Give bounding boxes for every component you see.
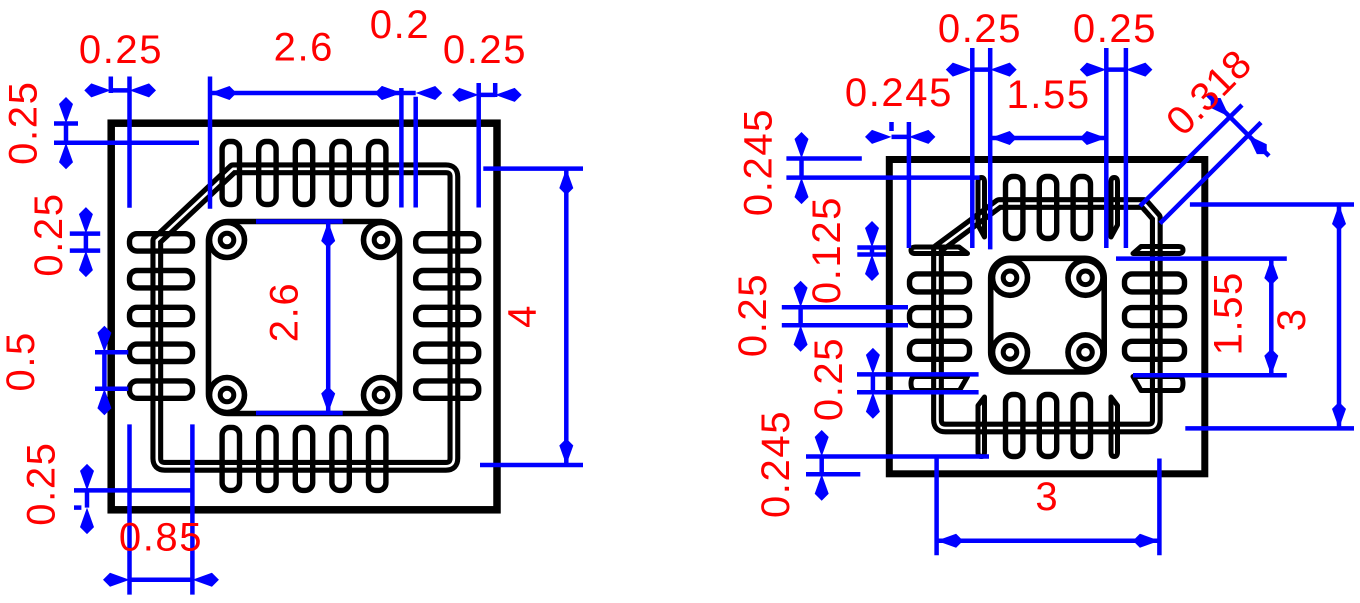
svg-text:0.25: 0.25 <box>731 273 775 357</box>
svg-text:0.245: 0.245 <box>754 410 798 518</box>
dim 1.55 top <box>990 136 1106 141</box>
svg-text:0.25: 0.25 <box>443 28 527 72</box>
dim 0.5 left (pitch) <box>95 350 128 355</box>
dim 0.245 left #1 <box>786 156 861 161</box>
right silkscreen outline (chamfer TL big, TR small) <box>938 204 1157 429</box>
right vias <box>993 260 1028 295</box>
dim 0.25 left #3 <box>782 305 908 310</box>
dim 0.85 bottom <box>127 424 132 594</box>
dim 1.55 right <box>1116 256 1287 261</box>
svg-text:2.6: 2.6 <box>274 26 334 70</box>
right corner clipped pads <box>978 178 985 238</box>
svg-text:0.125: 0.125 <box>805 196 849 304</box>
dim 0.25 left #4 <box>857 372 979 377</box>
svg-text:3: 3 <box>1035 475 1059 519</box>
svg-text:0.25: 0.25 <box>807 337 851 421</box>
svg-text:0.25: 0.25 <box>27 192 71 276</box>
svg-text:0.25: 0.25 <box>79 28 163 72</box>
right center exposed pad <box>991 258 1104 372</box>
dim 0.318 diagonal <box>1140 105 1242 206</box>
dim 3 bottom <box>934 459 939 556</box>
dim 3 right <box>1190 202 1354 207</box>
svg-text:3: 3 <box>1270 307 1314 331</box>
svg-text:0.2: 0.2 <box>370 3 430 47</box>
svg-text:0.245: 0.245 <box>845 71 953 115</box>
dim 2.6 vertical (exposed pad) <box>256 219 343 224</box>
svg-text:2.6: 2.6 <box>263 282 307 342</box>
svg-text:0.245: 0.245 <box>737 108 781 216</box>
dim 0.25 left (pad height) <box>70 231 100 236</box>
left silkscreen outline (double line, chamfered top-left) <box>157 169 454 467</box>
left vias <box>210 223 245 258</box>
left footprint board outline <box>111 123 497 510</box>
dim 0.25 top-right pair <box>1104 48 1109 248</box>
dim 0.245 bottom-left <box>806 454 989 459</box>
svg-text:0.25: 0.25 <box>1073 7 1157 51</box>
svg-text:1.55: 1.55 <box>1206 271 1250 355</box>
dim 0.25 top-left pair <box>970 48 975 248</box>
left footprint pads <box>222 142 239 205</box>
right footprint board outline <box>889 160 1205 474</box>
svg-text:0.25: 0.25 <box>20 441 64 525</box>
svg-text:0.25: 0.25 <box>938 7 1022 51</box>
dim 0.25 top-right <box>476 83 481 208</box>
svg-text:1.55: 1.55 <box>1006 73 1090 117</box>
svg-text:0.85: 0.85 <box>119 515 203 559</box>
dim 0.125 left <box>857 245 886 250</box>
dim 2.6 top <box>208 77 213 209</box>
dim 0.25 top-left <box>109 77 114 94</box>
dim 0.2 top <box>413 97 418 208</box>
svg-text:4: 4 <box>501 304 545 328</box>
dim 0.245 top (board edge to pad) <box>889 122 894 131</box>
svg-text:0.25: 0.25 <box>1 81 45 165</box>
right footprint full pads <box>1006 177 1023 239</box>
svg-text:0.5: 0.5 <box>0 331 43 391</box>
dim 0.25 left upper (board to pad top) <box>54 121 78 126</box>
left center exposed pad <box>209 222 400 414</box>
dim 0.25 bottom-left <box>74 488 192 493</box>
dim 4 right <box>483 166 583 171</box>
